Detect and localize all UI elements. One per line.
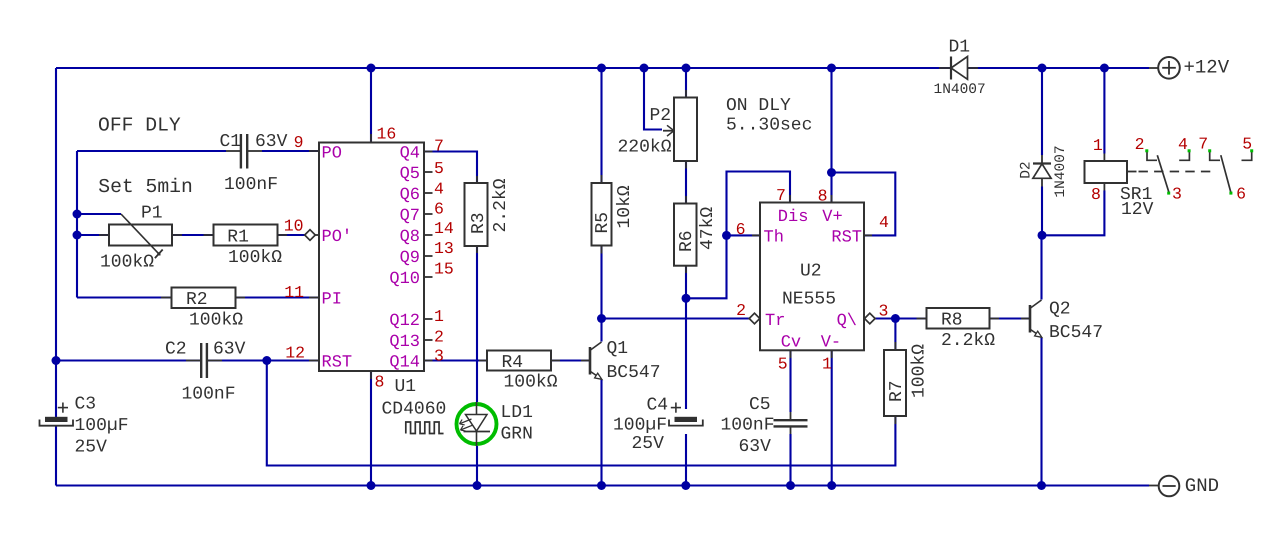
svg-text:OFF DLY: OFF DLY [98,115,181,137]
svg-text:Q7: Q7 [400,207,420,226]
svg-text:100nF: 100nF [224,175,278,195]
relay contact net dot (1168.7,193.1) [1167,192,1170,195]
svg-text:C5: C5 [749,395,771,415]
resistor R2 body [161,297,172,299]
svg-text:PO': PO' [322,228,353,247]
wire R8 to Q2 base [990,317,1031,319]
svg-text:100kΩ: 100kΩ [910,344,930,398]
svg-text:R2: R2 [186,290,208,310]
svg-text:Q6: Q6 [400,186,420,205]
junction on top bus x=644 [640,64,649,73]
wire R5 bottom to junction [600,246,602,319]
transistor Q1 BC547 [581,360,590,362]
svg-text:5: 5 [1242,135,1252,154]
resistor R8 body [917,318,927,320]
transistor Q2 BC547 [1021,318,1030,320]
svg-text:2.2kΩ: 2.2kΩ [941,331,995,351]
svg-text:Th: Th [764,229,784,248]
svg-text:+12V: +12V [1184,57,1230,79]
svg-text:4: 4 [1178,135,1188,154]
wire left vertical bus [55,68,57,417]
svg-text:Set 5min: Set 5min [98,176,193,198]
junction on GND bus x=685.8 [681,481,690,490]
wire inner-left vertical [76,151,78,298]
relay contact pin 7 hook [1210,152,1220,161]
potentiometer P2 body [685,90,687,98]
U1 pin 8 stub [370,371,372,379]
relay switch lever 2-3 [1157,155,1169,192]
wire U2 RST pin 4 loop to V+ line [832,173,896,236]
svg-text:GND: GND [1185,475,1219,497]
svg-text:C2: C2 [165,340,187,360]
svg-text:P2: P2 [650,106,672,126]
wire D1 anode from top bus [978,67,1042,69]
wire U1 Q4 output to R3 top [424,152,477,184]
junction RST row x=267 [262,356,271,365]
op-amp U2 NE555 box [760,203,864,351]
svg-text:14: 14 [434,219,454,238]
junction on top bus x=831.5 [827,64,836,73]
relay contact net dot (1251.7,150.8) [1250,149,1253,152]
svg-text:220kΩ: 220kΩ [618,138,672,158]
svg-text:Q9: Q9 [400,249,420,268]
svg-text:Q12: Q12 [389,312,420,331]
svg-text:8: 8 [375,373,385,392]
svg-text:2.2kΩ: 2.2kΩ [491,178,511,232]
svg-text:Q\: Q\ [837,312,857,331]
svg-text:2: 2 [1135,135,1145,154]
relay switch lever 7-6 [1221,155,1231,192]
svg-text:P1: P1 [141,204,163,224]
svg-text:1: 1 [822,355,832,374]
junction inner-left P1 top [73,210,82,219]
svg-text:100kΩ: 100kΩ [504,373,558,393]
junction inner-left P1 row [73,231,82,240]
svg-text:V-: V- [821,334,841,353]
relay contact pin 4 hook [1179,152,1189,161]
wire relay pin 1 from top bus [1103,68,1105,154]
junction R6 bottom / C4 / Th branch [682,294,691,303]
svg-text:15: 15 [434,259,454,278]
junction on GND bus x=371 [367,481,376,490]
svg-text:25V: 25V [632,434,665,454]
wire Tr row from junction to U2 pin 2 [602,317,750,319]
svg-text:PO: PO [322,145,342,164]
capacitor C3 plus sign [58,407,68,409]
potentiometer P2 wiper arrow [663,130,674,132]
power +12V symbol [1149,67,1158,69]
U1 oscillator waveform glyph [406,422,444,434]
wire D2 branch from top bus [1041,68,1043,155]
relay SR1 linkage dashed line [1139,171,1214,173]
wire R3 bottom through LED to bottom bus [476,246,478,402]
svg-text:100nF: 100nF [182,385,236,405]
svg-text:R4: R4 [502,353,524,373]
wire R6 bottom down to C4 top [685,266,687,409]
capacitor C3 body [40,420,74,426]
junction on GND bus x=831.7 [827,481,836,490]
svg-text:7: 7 [434,136,444,155]
LED LD1 emission arrows [460,419,472,424]
svg-text:100kΩ: 100kΩ [228,248,282,268]
svg-text:Q5: Q5 [400,165,420,184]
svg-text:1: 1 [434,307,444,326]
resistor R7 body [894,342,896,350]
svg-text:Q8: Q8 [400,228,420,247]
diode D1 1N4007 [939,67,951,69]
svg-text:R3: R3 [469,212,489,234]
wire U1 pin 8 to bottom bus [370,371,372,486]
svg-text:LD1: LD1 [501,403,533,423]
junction on GND bus x=477 [473,481,482,490]
svg-text:3: 3 [879,302,889,321]
svg-text:R1: R1 [227,228,249,248]
wire RST junction down and across to R7 bottom [267,361,896,466]
svg-text:3: 3 [1172,184,1182,203]
svg-text:C4: C4 [647,396,669,416]
svg-text:Q13: Q13 [389,333,420,352]
ground GND symbol [1149,485,1159,487]
wire R2 row to U1 pin 11 [76,296,78,298]
svg-text:R6: R6 [677,230,697,252]
wire U1 Q14 row to R4 [424,359,487,361]
wire C5 from U2 pin 5 [789,350,791,412]
relay contact net dot (1230.9,193.1) [1229,192,1232,195]
capacitor C4 body [669,420,703,426]
svg-text:7: 7 [1198,135,1208,154]
svg-text:1N4007: 1N4007 [934,82,986,98]
diode D2 1N4007 [1041,155,1043,164]
wire top +12V bus [56,67,1149,69]
LED LD1 green ring [457,404,497,444]
svg-text:25V: 25V [75,438,108,458]
svg-text:11: 11 [284,283,304,302]
svg-text:100µF: 100µF [613,416,667,436]
svg-text:Q1: Q1 [607,339,629,359]
junction on top bus x=601.5 [597,64,606,73]
wire P2 wiper branch from top bus [644,68,662,130]
svg-text:U2: U2 [800,262,822,282]
resistor R4 body [479,360,487,362]
relay contact pin 2 hook [1147,152,1157,161]
svg-text:16: 16 [377,125,397,144]
wire C1 row from inner-left vertical to U1 pin 9 [77,150,226,152]
svg-text:2: 2 [434,328,444,347]
wire R5 from top bus [600,68,602,183]
wire U2 V+ pin 8 to top bus [830,68,832,203]
U2 pin stubs [752,234,760,236]
svg-text:100kΩ: 100kΩ [100,253,154,273]
wire Q1 collector up to Tr-row junction [600,319,602,342]
capacitor C5 plates [790,412,792,420]
svg-text:5..30sec: 5..30sec [726,116,812,136]
relay contact pin 5 hook [1242,152,1252,161]
svg-text:R5: R5 [593,212,613,234]
resistor R5 body [601,175,603,183]
resistor R6 body [685,196,687,204]
wire P1 row to R1 to U1 pin 10 [77,234,109,236]
junction Th row [722,231,731,240]
svg-text:100nF: 100nF [721,416,775,436]
svg-text:U1: U1 [395,377,417,397]
wire Q1 emitter down to bottom bus [600,379,602,486]
junction on top bus x=1042 [1038,64,1047,73]
svg-text:RST: RST [322,354,353,373]
svg-text:6: 6 [434,200,444,219]
potentiometer P1 wiper arrow [121,214,159,254]
junction Tr row / R5 / Q1 [597,314,606,323]
svg-text:47kΩ: 47kΩ [698,207,718,250]
wire P2 bottom to R6 top [685,161,687,204]
svg-text:6: 6 [736,220,746,239]
svg-text:100kΩ: 100kΩ [189,311,243,331]
svg-text:Cv: Cv [781,334,801,353]
U1 pin stubs right [424,151,433,153]
svg-text:12V: 12V [1121,200,1154,220]
svg-text:5: 5 [778,355,788,374]
U2 pin 2 diamond [749,313,760,324]
svg-text:R8: R8 [941,311,963,331]
svg-text:BC547: BC547 [607,363,661,383]
relay contact net dot (1146.8,150.8) [1145,149,1148,152]
svg-text:100µF: 100µF [75,416,129,436]
svg-text:4: 4 [879,213,889,232]
svg-text:10: 10 [284,217,304,236]
svg-text:Tr: Tr [765,312,785,331]
svg-text:BC547: BC547 [1049,323,1103,343]
resistor R3 body [476,176,478,183]
svg-text:Q4: Q4 [400,145,420,164]
U1 pin 10 diamond [305,230,316,241]
svg-text:Q2: Q2 [1049,300,1071,320]
wire U2 output Q to R8 [875,317,927,319]
svg-text:1: 1 [1093,136,1103,155]
relay SR1 coil [1103,154,1105,162]
svg-text:Q10: Q10 [389,270,420,289]
svg-text:GRN: GRN [501,425,533,445]
wire relay coil return [1042,191,1104,236]
U1 pin 16 stub [370,134,372,143]
svg-text:63V: 63V [739,437,772,457]
svg-text:7: 7 [776,186,786,205]
capacitor C1 plates [226,150,240,152]
svg-text:6: 6 [1236,184,1246,203]
svg-text:Q14: Q14 [389,354,420,373]
junction on top bus x=371 [367,64,376,73]
wire Q2 collector up to junction [1040,235,1042,299]
svg-text:D1: D1 [949,38,971,58]
svg-text:8: 8 [818,187,828,206]
svg-text:1N4007: 1N4007 [1053,145,1069,197]
wire P2 from top bus [685,68,687,98]
relay contact net dot (1189.1,150.8) [1188,149,1191,152]
junction left bus RST row [52,356,61,365]
svg-text:PI: PI [322,291,342,310]
junction on GND bus x=790.5 [786,481,795,490]
svg-text:V+: V+ [822,208,842,227]
wire R7 top branch [894,319,896,351]
wire U1 pin 16 to top bus [370,68,372,143]
svg-text:2: 2 [736,301,746,320]
svg-text:C1: C1 [220,132,242,152]
resistor R1 body [204,234,214,236]
junction on GND bus x=1041.5 [1037,481,1046,490]
wire bottom GND bus [56,484,1149,486]
svg-text:CD4060: CD4060 [382,400,447,420]
junction on GND bus x=601.5 [597,481,606,490]
wire U2 V- pin 1 to GND bus [831,350,833,485]
svg-text:4: 4 [434,179,444,198]
svg-text:5: 5 [434,159,444,178]
capacitor C2 plates [186,360,200,362]
wire C4 bottom to GND bus [685,434,687,486]
wire R4 to Q1 base [551,359,590,361]
U1 pin stubs left [309,150,319,152]
svg-text:12: 12 [285,344,305,363]
svg-text:C3: C3 [75,395,97,415]
op-amp U1 CD4060 box [319,143,424,372]
relay SR1 coil linkage stub [1127,171,1137,173]
svg-text:9: 9 [294,133,304,152]
svg-text:13: 13 [434,239,454,258]
capacitor C4 plus sign [671,407,681,409]
svg-text:63V: 63V [213,340,246,360]
U2 pin 3 diamond [865,313,876,324]
wire D2 anode down to collector junction [1041,187,1043,236]
LED LD1 symbol [466,415,488,432]
wire P1 top branch [77,213,121,215]
relay contact net dot (1209.7,150.8) [1208,149,1211,152]
wire Q2 emitter down to GND bus [1040,338,1042,486]
potentiometer P1 body [99,234,109,236]
wire RST row: left bus to C2 to U1 pin 12 [56,359,200,361]
svg-text:ON DLY: ON DLY [726,96,791,116]
wire Th junction branch [686,172,790,299]
svg-text:R7: R7 [887,380,907,402]
junction D2 / relay / Q2 collector [1038,231,1047,240]
svg-text:Dis: Dis [778,208,809,227]
junction V+ line / RST loop [827,168,836,177]
svg-text:NE555: NE555 [782,290,836,310]
svg-text:RST: RST [831,229,862,248]
junction on top bus x=1104.4 [1100,64,1109,73]
svg-text:3: 3 [434,347,444,366]
svg-text:10kΩ: 10kΩ [615,185,635,228]
junction Q output / R7 [891,314,900,323]
wire Th row to U2 pin 6 [727,234,761,236]
wire C5 bottom to GND bus [789,434,791,486]
junction on top bus x=686 [682,64,691,73]
svg-text:8: 8 [1091,185,1101,204]
svg-text:63V: 63V [255,132,288,152]
svg-text:D2: D2 [1019,161,1035,178]
